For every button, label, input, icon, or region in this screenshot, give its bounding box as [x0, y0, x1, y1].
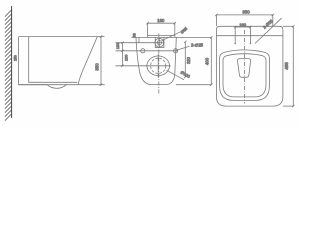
dim tick slashes — [100, 14, 295, 108]
plan second dim 160 — [235, 26, 250, 28]
rear view boss top — [148, 35, 175, 37]
plan view outer — [216, 26, 283, 106]
left stacked dims — [122, 43, 124, 66]
inner right vertical dim — [184, 42, 186, 77]
svg-text:100: 100 — [125, 55, 129, 61]
plan top dim 350 — [216, 14, 272, 16]
leader inlet diag — [162, 32, 181, 41]
svg-text:400: 400 — [204, 57, 209, 65]
2-d25 text — [176, 46, 190, 50]
inlet circle — [155, 38, 164, 47]
svg-text:180: 180 — [157, 18, 165, 23]
svg-text:133: 133 — [116, 43, 120, 49]
top dim 180 — [148, 22, 175, 24]
inlet center extension to left — [116, 42, 155, 44]
plan right dim — [292, 26, 294, 106]
plan mid horizontal line — [216, 35, 283, 37]
drain leader — [167, 70, 185, 80]
side view top edge extension — [97, 36, 104, 38]
svg-text:320: 320 — [186, 56, 191, 64]
side view inner lines — [29, 37, 77, 83]
side view bowl arc — [47, 85, 66, 89]
svg-text:33: 33 — [132, 33, 136, 37]
plan bowl rim — [220, 50, 270, 101]
vertical centerline rear view — [158, 34, 160, 95]
side view height dimension line — [100, 37, 102, 85]
side view body outline — [19, 37, 98, 85]
side view bottom edge extension — [19, 84, 105, 86]
plan top-right leader — [255, 18, 282, 44]
plan bowl rim inner — [223, 54, 266, 97]
plan inner sump — [237, 59, 250, 78]
svg-text:485: 485 — [284, 62, 289, 70]
outer right vertical dim — [210, 37, 212, 84]
rear view inlet box — [155, 37, 164, 47]
svg-text:2-∅25: 2-∅25 — [191, 42, 204, 47]
wall line (side view) — [11, 6, 13, 118]
rear view outer — [136, 37, 176, 84]
plan centerline vertical — [244, 30, 246, 104]
wall hatching — [5, 10, 12, 121]
svg-text:∅55: ∅55 — [180, 27, 188, 35]
drain circle — [147, 56, 170, 76]
svg-text:160: 160 — [239, 22, 246, 27]
svg-text:350: 350 — [95, 63, 100, 71]
svg-text:250: 250 — [14, 55, 18, 61]
bolt hole center line (long) — [116, 50, 178, 52]
svg-text:350: 350 — [242, 9, 250, 14]
bolt holes — [141, 49, 145, 53]
